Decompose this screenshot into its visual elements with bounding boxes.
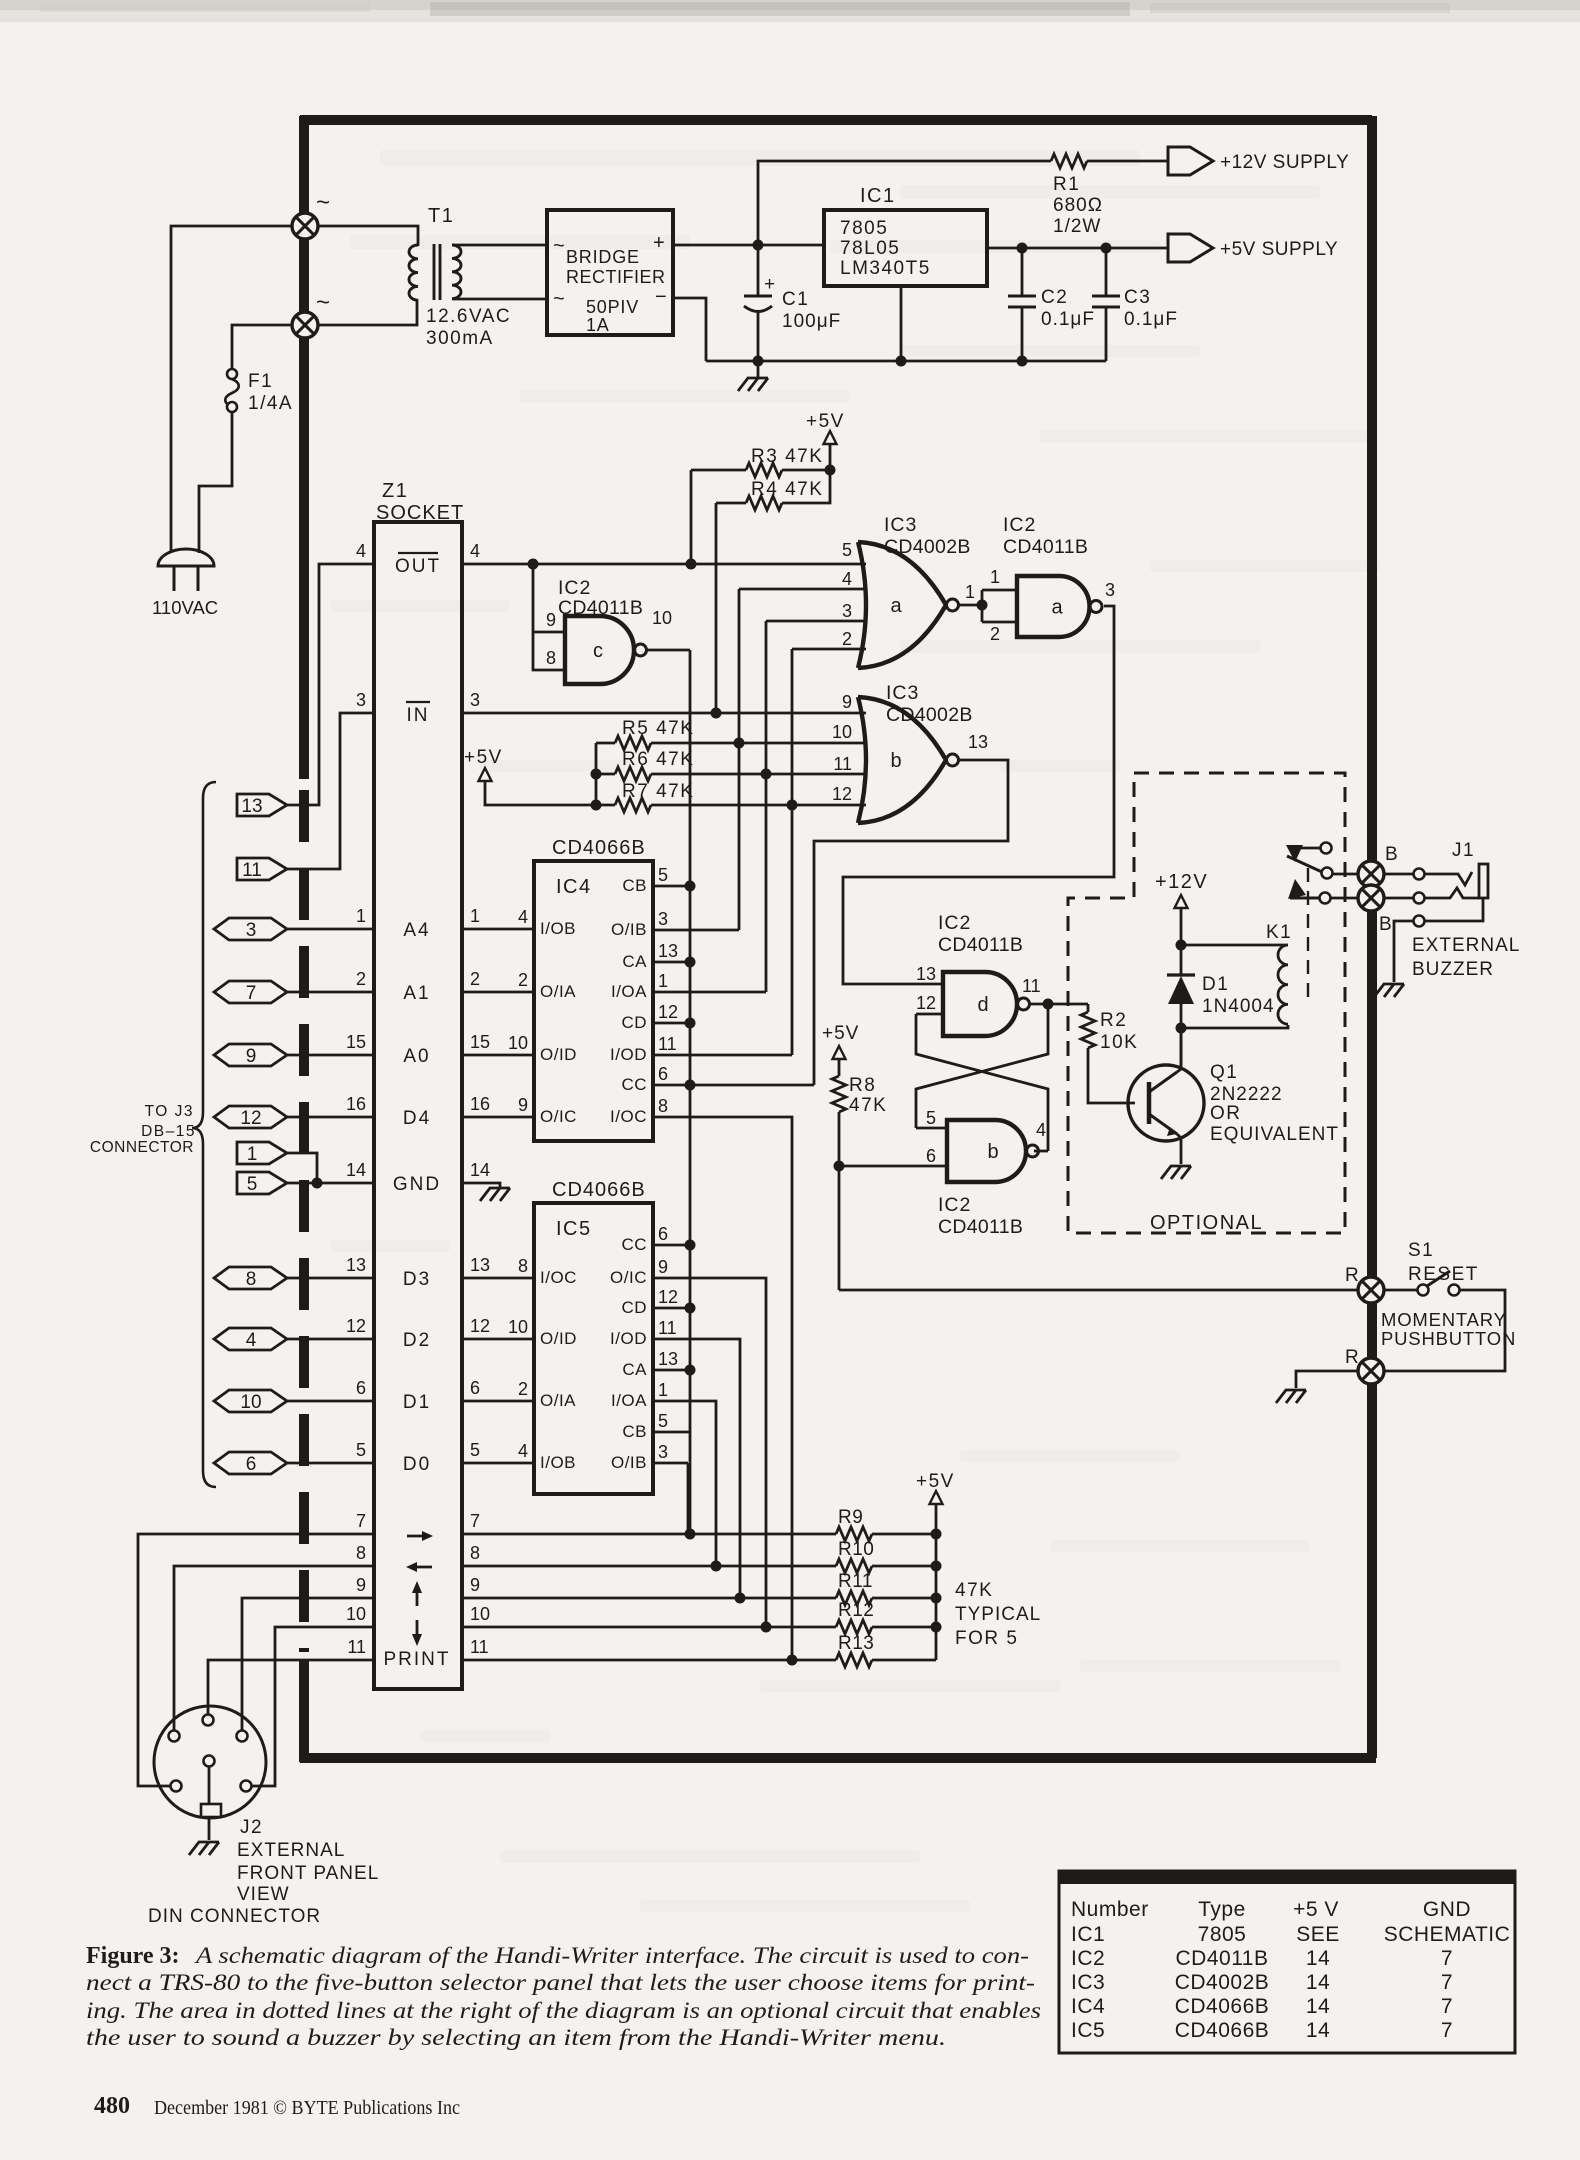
svg-text:R2: R2 — [1100, 1010, 1127, 1031]
svg-text:R11: R11 — [838, 1571, 873, 1592]
svg-text:O/ID: O/ID — [540, 1329, 577, 1348]
wire IC5 O/IB drop to key row 7 — [687, 1463, 690, 1534]
wire IC5 CD stub — [653, 1307, 690, 1310]
wire C2 bottom lead — [1021, 307, 1024, 361]
svg-text:BRIDGE: BRIDGE — [566, 247, 640, 267]
wire IC4 I/OC to key row 11 — [653, 1117, 792, 1660]
NAND gate IC2 c — [565, 616, 634, 684]
wire IC5 CC stub — [653, 1244, 690, 1247]
svg-text:15: 15 — [470, 1032, 490, 1052]
svg-text:O/IB: O/IB — [611, 920, 647, 939]
wire collector feed — [1180, 1028, 1183, 1067]
NOR gate IC3 a — [858, 542, 866, 668]
svg-text:A4: A4 — [403, 920, 430, 941]
svg-text:7: 7 — [356, 1511, 366, 1531]
node NOR a out — [977, 600, 988, 611]
svg-text:OPTIONAL: OPTIONAL — [1150, 1212, 1263, 1234]
svg-text:CD4066B: CD4066B — [552, 1179, 646, 1201]
wire R8 bottom lead — [838, 1112, 841, 1166]
node D1 K1 bottom — [1176, 1023, 1187, 1034]
svg-text:13: 13 — [241, 796, 262, 817]
svg-text:T1: T1 — [428, 205, 454, 227]
svg-text:FRONT PANEL: FRONT PANEL — [237, 1863, 379, 1884]
svg-text:3: 3 — [356, 690, 366, 710]
wire +5V arrow stem to R7 row — [485, 781, 596, 805]
wire J2 notch to ground — [208, 1817, 211, 1840]
wire flip-flop cross coupling — [916, 1014, 1048, 1151]
svg-text:IC1: IC1 — [860, 185, 896, 207]
svg-text:9: 9 — [842, 692, 852, 712]
wire key row 8 to DIN — [174, 1566, 374, 1730]
svg-text:CB: CB — [622, 1422, 647, 1441]
analog switch IC5 — [534, 1203, 653, 1494]
wire NAND a output 3 long route to NAND d pin 13 — [843, 606, 1114, 984]
svg-text:IC4: IC4 — [556, 876, 592, 898]
svg-text:CD4011B: CD4011B — [1003, 536, 1088, 558]
svg-text:IC5: IC5 — [556, 1218, 592, 1240]
svg-text:1: 1 — [247, 1144, 258, 1165]
svg-text:A schematic diagram of the Han: A schematic diagram of the Handi-Writer … — [194, 1943, 1029, 1969]
wire K1 bottom lead — [1181, 1025, 1288, 1028]
wire IC5 I/OA to key row 8 — [653, 1401, 716, 1566]
node R6 tap — [761, 769, 772, 780]
wire tag3 to Z1 pin1 — [287, 928, 374, 931]
svg-text:IC2: IC2 — [558, 577, 591, 599]
svg-text:MOMENTARY: MOMENTARY — [1381, 1309, 1507, 1330]
node IC4 CB control — [685, 881, 696, 892]
wire R3 right lead — [782, 469, 830, 472]
wire NOR a pin2 to R7 tap to IC4 I/OD — [791, 649, 794, 1055]
svg-text:12: 12 — [658, 1002, 678, 1022]
svg-text:12: 12 — [346, 1316, 366, 1336]
svg-text:EXTERNAL: EXTERNAL — [1412, 935, 1520, 956]
resistor R13 — [836, 1653, 872, 1667]
wire reset line to S1 — [839, 1289, 1359, 1292]
wire tag6 to Z1 pin5 — [287, 1462, 374, 1465]
svg-text:14: 14 — [470, 1160, 490, 1180]
node IC5 CD control — [685, 1303, 696, 1314]
svg-text:I/OB: I/OB — [540, 1453, 576, 1472]
wire tag1 to GND row — [287, 1153, 317, 1183]
svg-text:6: 6 — [470, 1378, 480, 1398]
svg-text:15: 15 — [346, 1032, 366, 1052]
svg-text:14: 14 — [1306, 1995, 1330, 2018]
wire tag9 to Z1 pin15 — [287, 1054, 374, 1057]
wire IC5 O/IC to key row 10 — [653, 1278, 766, 1627]
node C1 ground — [753, 356, 764, 367]
wire Q1 emitter to ground — [1177, 1134, 1181, 1164]
svg-text:10: 10 — [652, 608, 672, 628]
wire C1 bottom lead — [757, 312, 760, 361]
svg-text:SOCKET: SOCKET — [376, 502, 464, 524]
svg-text:4: 4 — [356, 541, 366, 561]
svg-text:R8: R8 — [849, 1075, 876, 1096]
node C2 ground — [1017, 356, 1028, 367]
svg-text:0.1μF: 0.1μF — [1124, 309, 1178, 330]
wire R4 to IN row — [715, 503, 718, 713]
Z1 socket body — [374, 522, 462, 1689]
svg-text:R3 47K: R3 47K — [751, 446, 823, 467]
svg-text:D3: D3 — [403, 1269, 431, 1290]
wire C3 top lead — [1105, 248, 1108, 296]
svg-text:CONNECTOR: CONNECTOR — [90, 1139, 194, 1156]
svg-text:2: 2 — [518, 970, 528, 990]
node OUT to R3 — [686, 559, 697, 570]
wire +12V feed — [758, 161, 1051, 245]
svg-text:IC2: IC2 — [938, 1194, 971, 1216]
ground below reset — [1276, 1390, 1306, 1403]
svg-text:9: 9 — [546, 610, 556, 630]
svg-text:~: ~ — [316, 289, 330, 316]
svg-text:CA: CA — [622, 952, 647, 971]
svg-text:4: 4 — [518, 907, 528, 927]
J2 pin top-center — [203, 1715, 214, 1726]
wire IC5 I/OD to key row 9 — [653, 1339, 740, 1598]
resistor R5 — [615, 736, 651, 750]
svg-text:I/OB: I/OB — [540, 919, 576, 938]
svg-text:b: b — [987, 1141, 998, 1163]
wire R10 to +5V column — [872, 1565, 936, 1568]
wire key row 11 — [462, 1597, 836, 1600]
wire C3 bottom lead — [1105, 307, 1108, 361]
svg-text:5: 5 — [247, 1174, 258, 1195]
svg-text:D2: D2 — [403, 1330, 431, 1351]
wire IC4 CC row — [653, 1084, 814, 1087]
svg-text:7: 7 — [1441, 2019, 1453, 2042]
svg-text:Q1: Q1 — [1210, 1062, 1238, 1083]
power arrow +12V optional — [1175, 895, 1188, 908]
node key row 9 tap — [735, 1593, 746, 1604]
svg-text:OR: OR — [1210, 1103, 1242, 1124]
svg-text:11: 11 — [1022, 976, 1041, 996]
svg-text:a: a — [890, 595, 902, 617]
faint print bleed-through (decorative) — [380, 150, 1140, 166]
svg-text:CC: CC — [621, 1235, 647, 1254]
svg-text:CD4066B: CD4066B — [1175, 1995, 1270, 2018]
svg-text:9: 9 — [470, 1575, 480, 1595]
wire T1 secondary bottom to bridge — [452, 298, 547, 301]
wire control column vertical — [689, 650, 692, 1534]
resistor R4 — [746, 496, 782, 510]
node tag1/tag5 join — [312, 1178, 323, 1189]
J2 index notch — [201, 1804, 221, 1817]
svg-text:1: 1 — [658, 1380, 668, 1400]
enclosure border left solid top segment — [299, 116, 309, 779]
wire R3 row — [691, 469, 746, 472]
svg-text:O/IA: O/IA — [540, 1391, 576, 1410]
svg-text:+: + — [764, 274, 775, 295]
node key row 11 tap — [787, 1655, 798, 1666]
wire R lower to ground — [1296, 1371, 1359, 1388]
wire R8 top lead — [838, 1059, 841, 1076]
resistor R12 — [836, 1620, 872, 1634]
wire NAND d output — [1030, 1003, 1088, 1006]
wire +5V column for key pull-ups — [935, 1504, 938, 1660]
node R5 tap — [734, 738, 745, 749]
svg-text:~: ~ — [553, 235, 565, 257]
wire tag7 to Z1 pin2 — [287, 991, 374, 994]
node IC4 CA control — [685, 957, 696, 968]
J2 pin mid-right — [241, 1781, 252, 1792]
svg-text:D1: D1 — [1202, 974, 1229, 995]
brace TO J3 DB-15 CONNECTOR — [192, 782, 216, 1487]
wire NOR a input 3 — [766, 620, 866, 623]
svg-text:7: 7 — [1441, 1971, 1453, 1994]
svg-text:50PIV: 50PIV — [586, 297, 639, 317]
svg-text:0.1μF: 0.1μF — [1041, 309, 1095, 330]
wire lower contact to B terminal — [1331, 897, 1359, 900]
svg-text:J1: J1 — [1452, 840, 1475, 861]
svg-text:F1: F1 — [248, 371, 273, 392]
wire R3 to OUT row — [690, 470, 693, 564]
wire tag12 to Z1 pin16 — [287, 1116, 374, 1119]
svg-text:8: 8 — [470, 1543, 480, 1563]
enclosure border left dashed segment — [299, 790, 309, 1652]
svg-text:~: ~ — [316, 189, 330, 216]
svg-text:9: 9 — [658, 1257, 668, 1277]
svg-text:EXTERNAL: EXTERNAL — [237, 1840, 345, 1861]
svg-text:1: 1 — [470, 906, 480, 926]
svg-text:+5V: +5V — [806, 411, 845, 432]
svg-text:Type: Type — [1198, 1898, 1246, 1921]
svg-text:+5 V: +5 V — [1293, 1898, 1339, 1921]
wire D1 top lead — [1180, 945, 1183, 975]
svg-text:+12V SUPPLY: +12V SUPPLY — [1220, 152, 1349, 173]
wire NOR a output to NAND a — [958, 604, 982, 607]
node R6 left — [591, 769, 602, 780]
svg-text:CD4002B: CD4002B — [1175, 1971, 1270, 1994]
svg-text:3: 3 — [658, 1442, 668, 1462]
connector tag 13 — [237, 794, 287, 816]
wire Z1 to IC5 I/OC — [462, 1277, 534, 1280]
svg-text:10: 10 — [508, 1033, 528, 1053]
wire bridge + output to IC1 input — [673, 244, 824, 247]
svg-text:d: d — [977, 994, 988, 1016]
wire key row 10 to DIN — [252, 1627, 374, 1786]
wire Z1 to IC4 O/IA — [462, 991, 534, 994]
svg-text:12: 12 — [470, 1316, 490, 1336]
supply tag +5V — [1168, 234, 1213, 262]
resistor R8 — [832, 1076, 846, 1112]
svg-text:−: − — [655, 286, 667, 308]
svg-text:+5V: +5V — [916, 1471, 955, 1492]
svg-text:6: 6 — [356, 1378, 366, 1398]
svg-text:7: 7 — [246, 983, 257, 1004]
relay contact mechanical link (dashed) — [1307, 868, 1309, 1006]
AC plug 110VAC — [158, 549, 214, 566]
svg-text:CD: CD — [621, 1013, 647, 1032]
wire R12 to +5V column — [872, 1626, 936, 1629]
svg-text:FOR 5: FOR 5 — [955, 1628, 1018, 1649]
transformer T1 primary winding — [409, 245, 418, 300]
node C2 top — [1017, 243, 1028, 254]
svg-text:R: R — [1345, 1347, 1359, 1368]
resistor R7 — [615, 798, 651, 812]
svg-text:13: 13 — [916, 964, 936, 984]
svg-text:7: 7 — [470, 1511, 480, 1531]
ground below Q1 — [1161, 1166, 1191, 1179]
svg-text:13: 13 — [968, 732, 988, 752]
wire NAND a input 2 stub — [982, 621, 1017, 624]
svg-text:10: 10 — [470, 1604, 490, 1624]
wire IC4 O/IB stub — [653, 929, 739, 932]
svg-text:47K: 47K — [955, 1580, 993, 1601]
analog switch IC4 — [534, 861, 653, 1141]
svg-text:7805: 7805 — [1198, 1923, 1247, 1946]
svg-text:480: 480 — [94, 2093, 130, 2119]
wire R9 to +5V column — [872, 1533, 936, 1536]
svg-text:7: 7 — [1441, 1995, 1453, 2018]
wire K1 top lead — [1181, 944, 1288, 947]
wire NAND b input 5 stub — [916, 1127, 947, 1130]
wire OUT row — [462, 563, 866, 566]
wire tag11 to Z1 pin3 — [287, 713, 374, 869]
svg-text:PUSHBUTTON: PUSHBUTTON — [1381, 1328, 1516, 1349]
wire C1 ground stub — [757, 361, 760, 378]
J2 center pin — [204, 1756, 215, 1767]
svg-text:LM340T5: LM340T5 — [840, 258, 931, 279]
svg-text:R6 47K: R6 47K — [622, 749, 694, 770]
svg-text:12: 12 — [658, 1287, 678, 1307]
J2 pin top-left — [169, 1731, 180, 1742]
node C3 top — [1101, 243, 1112, 254]
wire R4 row — [716, 502, 746, 505]
svg-text:IC3: IC3 — [886, 682, 919, 704]
wire IC1 output to +5V tag — [987, 247, 1168, 250]
svg-text:2: 2 — [990, 624, 1000, 644]
node key row 8 tap — [711, 1561, 722, 1572]
svg-text:R: R — [1345, 1265, 1359, 1286]
svg-text:1: 1 — [356, 906, 366, 926]
svg-text:CD4066B: CD4066B — [1175, 2019, 1270, 2042]
wire NAND c input 9 stub — [533, 631, 565, 634]
svg-text:5: 5 — [842, 540, 852, 560]
svg-text:9: 9 — [356, 1575, 366, 1595]
svg-text:47K: 47K — [849, 1095, 887, 1116]
wire tag5 to Z1 pin14 — [287, 1182, 374, 1185]
svg-text:S1: S1 — [1408, 1240, 1434, 1261]
svg-text:6: 6 — [926, 1146, 936, 1166]
svg-text:C3: C3 — [1124, 287, 1151, 308]
fuse F1 — [227, 369, 237, 379]
transformer T1 core — [434, 244, 440, 300]
svg-text:3: 3 — [658, 909, 668, 929]
resistor R2 — [1081, 1012, 1095, 1048]
svg-text:Number: Number — [1071, 1898, 1149, 1921]
svg-text:I/OD: I/OD — [610, 1045, 647, 1064]
svg-text:110VAC: 110VAC — [152, 597, 218, 618]
svg-text:IC5: IC5 — [1071, 2019, 1105, 2042]
svg-text:TYPICAL: TYPICAL — [955, 1604, 1041, 1625]
svg-text:11: 11 — [658, 1034, 677, 1054]
svg-text:8: 8 — [658, 1096, 668, 1116]
svg-text:R9: R9 — [838, 1507, 863, 1528]
svg-text:16: 16 — [470, 1094, 490, 1114]
svg-text:100μF: 100μF — [782, 311, 841, 332]
svg-text:3: 3 — [842, 601, 852, 621]
wire +5V arrow stem R3R4 — [829, 444, 832, 470]
svg-text:A1: A1 — [403, 983, 430, 1004]
svg-text:~: ~ — [553, 288, 565, 310]
wire IC4 CD stub — [653, 1022, 690, 1025]
enclosure border top — [300, 115, 1372, 125]
svg-text:11: 11 — [347, 1637, 366, 1657]
svg-text:IC2: IC2 — [1003, 514, 1036, 536]
svg-text:6: 6 — [246, 1454, 257, 1475]
connector tag 6 — [214, 1452, 287, 1474]
wire Z1 to IC4 I/OB — [462, 928, 534, 931]
wire NOR a input 4 — [739, 588, 866, 591]
svg-text:D0: D0 — [403, 1454, 431, 1475]
svg-text:10: 10 — [508, 1317, 528, 1337]
wire fuse to plug — [199, 412, 232, 553]
svg-text:1/2W: 1/2W — [1053, 216, 1101, 237]
resistor R11 — [836, 1591, 872, 1605]
svg-text:IN: IN — [407, 705, 430, 726]
wire IC4 I/OD stub — [653, 1054, 792, 1057]
NAND gate IC2 a — [1017, 576, 1090, 637]
svg-text:1: 1 — [965, 582, 975, 602]
node key row 7 tap — [685, 1529, 696, 1540]
ground at Z1 pin 14 — [480, 1188, 510, 1201]
wire NAND c output to control column — [647, 649, 690, 652]
svg-text:+: + — [653, 232, 665, 254]
svg-text:ing. The area in dotted lines: ing. The area in dotted lines at the rig… — [86, 1998, 1041, 2024]
svg-text:R1: R1 — [1053, 174, 1080, 195]
node IC4 CC control — [685, 1080, 696, 1091]
svg-text:CD4066B: CD4066B — [552, 837, 646, 859]
scanner smudge band (decorative, faint) — [0, 0, 1580, 22]
wire key row 13 — [462, 1659, 836, 1662]
resistor R3 — [746, 463, 782, 477]
wire Z1 to IC5 O/IA — [462, 1400, 534, 1403]
wire Z1 to IC4 O/ID — [462, 1054, 534, 1057]
connector tag 8 — [214, 1267, 287, 1289]
svg-text:11: 11 — [242, 860, 262, 881]
svg-text:Z1: Z1 — [382, 480, 408, 502]
svg-text:4: 4 — [1036, 1120, 1046, 1140]
wire Q1 collector — [1177, 1028, 1181, 1072]
svg-text:I/OA: I/OA — [611, 982, 647, 1001]
svg-text:b: b — [890, 750, 901, 772]
svg-text:14: 14 — [1306, 1971, 1330, 1994]
svg-text:DIN CONNECTOR: DIN CONNECTOR — [148, 1906, 321, 1927]
wire R6 row to NOR b input 11 — [651, 773, 866, 776]
svg-text:K1: K1 — [1266, 922, 1292, 943]
svg-text:IC4: IC4 — [1071, 1995, 1105, 2018]
svg-text:R4 47K: R4 47K — [751, 479, 823, 500]
wire R7 row to NOR b input 12 — [651, 804, 866, 807]
svg-text:4: 4 — [246, 1330, 257, 1351]
svg-text:2: 2 — [518, 1379, 528, 1399]
svg-text:8: 8 — [546, 648, 556, 668]
relay contact upper pole — [1291, 847, 1324, 850]
svg-text:5: 5 — [926, 1108, 936, 1128]
svg-text:RECTIFIER: RECTIFIER — [566, 267, 666, 287]
svg-text:16: 16 — [346, 1094, 366, 1114]
wire R1 to +12V supply tag — [1087, 160, 1168, 163]
svg-text:680Ω: 680Ω — [1053, 195, 1103, 216]
wire tag8 to Z1 pin13 — [287, 1277, 374, 1280]
svg-text:O/IC: O/IC — [610, 1268, 647, 1287]
wire R8 node down to reset line — [838, 1166, 841, 1290]
svg-text:4: 4 — [470, 541, 480, 561]
wire IC4 CB stub — [653, 885, 690, 888]
wire minus output to ground rail — [673, 298, 706, 361]
svg-text:12: 12 — [916, 993, 936, 1013]
ground external buzzer — [1374, 984, 1404, 997]
svg-text:EQUIVALENT: EQUIVALENT — [1210, 1124, 1339, 1145]
